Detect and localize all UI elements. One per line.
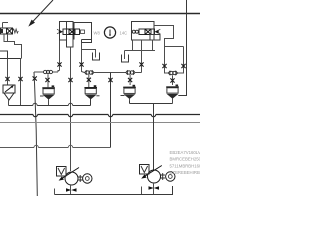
wire vertical right riser	[178, 0, 186, 96]
motor M1	[78, 174, 92, 183]
bus drain 148	[0, 145, 111, 147]
wire C4 down	[172, 75, 174, 85]
wire filter F2 stub	[141, 187, 143, 195]
plug X8	[87, 78, 91, 82]
svg-text:BMRCEBEH250MPa: BMRCEBEH250MPa	[170, 157, 201, 162]
wire riser x166	[165, 47, 169, 74]
plug X7	[79, 62, 83, 66]
gauge G1	[104, 27, 115, 38]
plug X1	[5, 77, 9, 81]
wire P1 drain	[70, 185, 72, 195]
motor M2	[161, 172, 176, 181]
plug X14	[108, 78, 112, 82]
bus return left 106	[9, 99, 91, 106]
plug X2	[18, 77, 22, 81]
plug X9	[128, 78, 132, 82]
wire V1 to block	[4, 34, 22, 58]
filter F2	[140, 165, 150, 175]
wire F3 drain	[48, 99, 50, 105]
bus gray 123	[0, 122, 200, 124]
valve V3 spool	[132, 29, 160, 35]
valve V2 block right	[74, 23, 92, 43]
wire V3 staircase	[154, 26, 184, 47]
coupler line left	[34, 71, 60, 73]
wire C2 down	[88, 75, 90, 88]
wire riser to V2	[59, 40, 61, 71]
wire AC1 drain	[90, 99, 92, 106]
plug X6	[68, 78, 72, 82]
valve V2 spool	[57, 29, 85, 35]
svg-text:W8: W8	[94, 31, 101, 36]
plug X13	[170, 78, 174, 82]
wire tank feed	[82, 50, 96, 58]
tank T2	[122, 55, 129, 63]
wire V1 pilot stub	[3, 23, 9, 29]
accumulator AC3	[166, 85, 179, 99]
pump P2	[141, 166, 162, 184]
wire drop left	[7, 59, 9, 86]
svg-text:14C: 14C	[120, 31, 128, 36]
bus return right 104	[130, 101, 173, 104]
accumulator AC1	[84, 85, 99, 99]
plug X10	[139, 62, 143, 66]
wire V3 left drops	[133, 40, 153, 51]
wire mid link 72	[93, 72, 126, 74]
svg-text:EZBREBEHIRB#8: EZBREBEHIRB#8	[170, 170, 201, 175]
valve V2 block left	[60, 22, 67, 41]
wire C3 down	[129, 75, 131, 85]
wire AC2 drain	[129, 99, 131, 104]
coupler C1 circles	[44, 70, 53, 73]
leader arrow	[28, 0, 53, 27]
plug X3	[33, 76, 37, 80]
coupler C4	[168, 71, 177, 76]
plug X5	[45, 78, 49, 82]
valve B1 pilot block	[0, 51, 8, 59]
wire bottom tank line	[55, 186, 173, 195]
wire V2 riser down	[70, 47, 72, 171]
coupler C3	[126, 70, 135, 75]
wire riser x183	[177, 47, 184, 74]
wire block link	[0, 58, 22, 60]
wire C1 to filter	[47, 74, 49, 87]
pump P1	[59, 168, 79, 186]
wire C3 right	[135, 72, 142, 74]
wire riser x141	[141, 40, 143, 73]
plug X4	[57, 62, 61, 66]
wire pump1 tank stub	[54, 189, 56, 195]
wire V2 right drop	[82, 43, 85, 73]
svg-text:5711MBRBH160ml: 5711MBRBH160ml	[170, 163, 201, 168]
coupling K1	[66, 188, 77, 191]
tank T1	[93, 53, 100, 61]
relief valve RV1	[3, 85, 15, 100]
coupler C2	[85, 70, 94, 75]
wire RV1 drain	[8, 100, 10, 106]
svg-text:EB2EA7V160LVMB: EB2EA7V160LVMB	[170, 150, 201, 155]
wire long drain x36	[34, 72, 37, 196]
wire top supply bus	[0, 13, 200, 15]
accumulator AC2	[121, 85, 136, 99]
wire drop 2	[20, 59, 22, 106]
wire return riser x110	[110, 73, 112, 148]
plug X11	[162, 64, 166, 68]
coupling K2	[149, 186, 160, 189]
valve V1 solenoid	[0, 28, 18, 34]
wire AC3 drain	[172, 98, 174, 103]
valve V3 sub block	[150, 35, 160, 41]
wire y50 rail	[125, 51, 156, 60]
filter F3	[40, 85, 55, 99]
bus main 115	[0, 115, 200, 117]
valve V2 block mid	[67, 22, 74, 48]
wire P2 drain	[153, 183, 155, 195]
wire pump2 riser	[153, 104, 155, 171]
plug X12	[181, 64, 185, 68]
filter F1	[57, 167, 67, 177]
note text block	[170, 150, 211, 175]
valve V3 block	[132, 22, 155, 41]
